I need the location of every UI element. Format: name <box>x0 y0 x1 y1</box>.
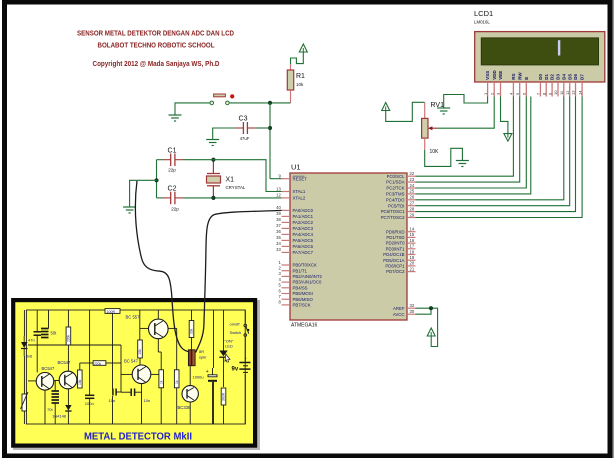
inset coil 50t <box>41 328 49 330</box>
wire PC1 to LCD <box>416 97 520 183</box>
wire PC2 to LCD <box>416 97 527 189</box>
svg-text:22p: 22p <box>171 207 179 212</box>
wire search-coil A (freehand) <box>135 181 188 352</box>
svg-text:100n: 100n <box>85 401 94 406</box>
svg-text:10: 10 <box>553 90 558 95</box>
inset capacitor 100n <box>85 394 94 396</box>
node crystal bottom <box>211 196 215 200</box>
svg-text:8R: 8R <box>199 349 204 354</box>
U1 pin 15 PD1/TXD <box>407 236 416 238</box>
svg-text:Copyright 2012 @ Mada Sanjaya: Copyright 2012 @ Mada Sanjaya WS, Ph.D <box>93 61 220 68</box>
wire PC3 to LCD <box>416 97 531 194</box>
svg-text:25: 25 <box>410 189 415 194</box>
svg-text:PB5/MOSI: PB5/MOSI <box>293 291 313 296</box>
inset resistor 33k <box>189 321 194 338</box>
svg-text:34: 34 <box>276 241 281 246</box>
svg-text:AVCC: AVCC <box>393 312 405 317</box>
IC U1 ATMEGA16 body <box>290 173 407 320</box>
wire VSS to ground <box>444 95 488 109</box>
wire VEE to power down <box>501 97 508 134</box>
LCD pin 10 D3 <box>557 82 559 97</box>
wire C1 row to XTAL1 <box>183 160 282 192</box>
svg-text:220k: 220k <box>67 334 71 342</box>
svg-text:PC4/TDO: PC4/TDO <box>386 197 405 202</box>
ground at C3 <box>206 139 219 141</box>
LCD pin 11 D4 <box>563 82 565 97</box>
LCD cursor <box>558 40 560 55</box>
U1 pin 32 AREF <box>407 307 416 309</box>
svg-text:PD6/ICP1: PD6/ICP1 <box>385 264 405 269</box>
svg-text:21: 21 <box>410 266 415 271</box>
svg-text:VDD: VDD <box>492 70 497 80</box>
node switch/R1/reset junction <box>268 101 272 105</box>
inset capacitor 10n a <box>112 389 114 396</box>
svg-text:PB1/T1: PB1/T1 <box>293 268 308 273</box>
ground at VSS <box>437 107 450 109</box>
svg-text:PA5/ADC5: PA5/ADC5 <box>293 238 314 243</box>
svg-text:1k: 1k <box>159 380 163 384</box>
LCD pin 7 D0 <box>539 82 541 97</box>
svg-text:D0: D0 <box>538 74 543 80</box>
node AREF/AVCC <box>429 306 433 310</box>
U1 pin 6 PB5/MOSI <box>282 293 291 295</box>
svg-text:PA4/ADC4: PA4/ADC4 <box>293 232 314 237</box>
svg-text:29: 29 <box>410 212 415 217</box>
U1 pin 13 XTAL1 <box>282 191 291 193</box>
svg-text:12: 12 <box>565 90 570 95</box>
svg-text:37: 37 <box>276 223 281 228</box>
svg-text:14: 14 <box>410 227 415 232</box>
inset speaker 8R <box>188 350 191 366</box>
svg-text:32: 32 <box>410 303 415 308</box>
svg-text:PA2/ADC2: PA2/ADC2 <box>293 220 314 225</box>
svg-text:24: 24 <box>410 183 415 188</box>
LCD screen <box>481 38 598 65</box>
svg-text:+: + <box>206 369 209 375</box>
U1 pin 30 AVCC <box>407 313 416 315</box>
svg-text:PB3/AIN1/OC0: PB3/AIN1/OC0 <box>293 280 323 285</box>
svg-text:C1: C1 <box>168 148 177 155</box>
inset resistor 220k h <box>93 361 106 366</box>
svg-text:220k: 220k <box>94 362 102 366</box>
svg-text:13: 13 <box>276 186 281 191</box>
svg-text:15: 15 <box>410 232 415 237</box>
U1 pin 4 PB3/AIN1/OC0 <box>282 281 291 283</box>
svg-text:390R: 390R <box>222 392 226 401</box>
svg-text:PA6/ADC6: PA6/ADC6 <box>293 244 314 249</box>
svg-text:LCD1: LCD1 <box>474 9 493 18</box>
svg-text:PA0/ADC0: PA0/ADC0 <box>293 208 314 213</box>
inset trimmer with arrow <box>22 394 26 411</box>
inset wire horizontals <box>28 380 36 382</box>
svg-text:D1: D1 <box>544 74 549 80</box>
svg-text:AREF: AREF <box>393 306 405 311</box>
ground at RV1 bottom <box>456 160 469 162</box>
svg-text:1N4148: 1N4148 <box>52 414 67 419</box>
inset metal detector picture frame <box>15 302 259 449</box>
U1 pin 12 XTAL2 <box>282 197 291 199</box>
LCD LCD1 body <box>475 32 605 82</box>
U1 pin 38 PA2/ADC2 <box>282 221 291 223</box>
inset wire verticals <box>36 310 38 332</box>
inset resistor 10k <box>138 340 143 358</box>
U1 pin 34 PA6/ADC6 <box>282 245 291 247</box>
svg-text:Switch: Switch <box>230 330 242 335</box>
svg-text:PD3/INT1: PD3/INT1 <box>386 246 405 251</box>
svg-text:16: 16 <box>410 238 415 243</box>
U1 pin 9 RESET <box>282 178 291 180</box>
svg-text:27: 27 <box>410 201 415 206</box>
inset inner border <box>26 310 245 424</box>
wire AREF <box>416 308 438 346</box>
svg-text:D6: D6 <box>573 74 578 80</box>
svg-text:47n: 47n <box>28 338 35 343</box>
inset resistor 100R <box>105 309 120 314</box>
svg-text:PA3/ADC3: PA3/ADC3 <box>293 226 314 231</box>
power down terminal at VEE <box>504 134 512 142</box>
wire node down to C3 and RESET <box>269 103 271 179</box>
svg-text:RESET: RESET <box>293 176 308 181</box>
svg-text:PC7/TOSC2: PC7/TOSC2 <box>381 215 405 220</box>
svg-text:ATMEGA16: ATMEGA16 <box>291 323 318 329</box>
svg-text:on/off: on/off <box>230 322 241 327</box>
node left rail <box>154 178 158 182</box>
svg-text:18: 18 <box>410 249 415 254</box>
node crystal top <box>211 158 215 162</box>
inset resistor r8 <box>174 370 179 388</box>
svg-text:19: 19 <box>410 255 415 260</box>
svg-text:40: 40 <box>276 205 281 210</box>
svg-text:36: 36 <box>276 229 281 234</box>
svg-text:D2: D2 <box>550 74 555 80</box>
wire node to RESET <box>270 178 282 180</box>
node C3 junction <box>268 126 272 130</box>
U1 pin 27 PC5/TDI <box>407 205 416 207</box>
svg-text:PD2/INT0: PD2/INT0 <box>386 241 405 246</box>
crystal X1 <box>212 160 214 174</box>
U1 pin 21 PD7/OC2 <box>407 271 416 273</box>
svg-text:X1: X1 <box>226 177 235 184</box>
U1 pin 22 PC0/SCL <box>407 175 416 177</box>
svg-text:BC338: BC338 <box>178 405 191 410</box>
wire AVCC <box>416 308 432 314</box>
power VCC terminal at RV1 <box>382 103 390 111</box>
push button switch <box>214 94 226 97</box>
svg-text:RW: RW <box>517 72 522 80</box>
svg-text:10k: 10k <box>296 82 304 87</box>
svg-text:METAL DETECTOR MkII: METAL DETECTOR MkII <box>84 432 192 443</box>
svg-text:R1: R1 <box>296 73 305 80</box>
U1 pin 16 PD2/INT0 <box>407 242 416 244</box>
svg-text:PC6/TOSC1: PC6/TOSC1 <box>381 209 405 214</box>
U1 pin 28 PC6/TOSC1 <box>407 211 416 213</box>
wire PC6 to LCD <box>416 97 576 212</box>
wire PC0 to LCD <box>416 97 514 177</box>
svg-text:13: 13 <box>571 90 576 95</box>
svg-text:PA7/ADC7: PA7/ADC7 <box>293 250 314 255</box>
svg-text:XTAL1: XTAL1 <box>293 189 306 194</box>
svg-text:spkr: spkr <box>199 355 207 360</box>
svg-text:VSS: VSS <box>485 71 490 80</box>
U1 pin 7 PB6/MISO <box>282 298 291 300</box>
U1 pin 18 PD4/OC1B <box>407 254 416 256</box>
wire C3 right to node <box>256 127 270 129</box>
svg-text:PC2/TCK: PC2/TCK <box>386 186 404 191</box>
U1 pin 39 PA1/ADC1 <box>282 215 291 217</box>
inset resistor 220k <box>66 327 71 345</box>
wire C3 left to ground <box>213 128 235 140</box>
svg-text:PB2/AIN0/INT2: PB2/AIN0/INT2 <box>293 274 323 279</box>
LCD pin 8 D1 <box>545 82 547 97</box>
svg-text:BC 557: BC 557 <box>126 315 141 320</box>
inset zener 5v6 <box>21 342 28 348</box>
svg-text:PD1/TXD: PD1/TXD <box>386 235 404 240</box>
inset resistor 390R <box>221 388 226 405</box>
LCD pin 2 VDD <box>493 82 495 97</box>
svg-text:D5: D5 <box>567 74 572 80</box>
svg-text:1000u: 1000u <box>193 374 204 379</box>
ground at left rail <box>123 206 136 208</box>
svg-text:22: 22 <box>410 171 415 176</box>
svg-text:SENSOR METAL DETEKTOR DENGAN A: SENSOR METAL DETEKTOR DENGAN ADC DAN LCD <box>77 31 234 38</box>
U1 pin 5 PB4/SS <box>282 287 291 289</box>
svg-text:BC547: BC547 <box>42 366 55 371</box>
svg-text:PD0/RXD: PD0/RXD <box>386 229 405 234</box>
svg-text:33k: 33k <box>190 328 194 334</box>
svg-text:PB6/MISO: PB6/MISO <box>293 297 314 302</box>
svg-text:50t: 50t <box>51 331 58 336</box>
inset resistor r2 <box>78 370 83 388</box>
svg-text:D7: D7 <box>580 74 585 80</box>
svg-text:RS: RS <box>511 74 516 80</box>
LCD pin 3 VEE <box>500 82 502 97</box>
svg-text:22p: 22p <box>168 168 176 173</box>
inset capacitor 10n b <box>130 389 132 397</box>
svg-text:28: 28 <box>410 206 415 211</box>
U1 pin 1 PB0/T0/XCK <box>282 264 291 266</box>
svg-text:PD5/OC1A: PD5/OC1A <box>383 258 404 263</box>
svg-text:D4: D4 <box>561 74 566 80</box>
U1 pin 40 PA0/ADC0 <box>282 209 291 211</box>
svg-text:BC 547: BC 547 <box>124 359 139 364</box>
svg-text:PC5/TDI: PC5/TDI <box>388 203 404 208</box>
svg-text:17: 17 <box>410 244 415 249</box>
U1 pin 36 PA4/ADC4 <box>282 233 291 235</box>
svg-text:RV1: RV1 <box>431 102 445 109</box>
svg-text:10n: 10n <box>144 398 151 403</box>
wire C1 left to rail <box>157 159 163 161</box>
svg-text:47uF: 47uF <box>240 136 250 141</box>
U1 pin 8 PB7/SCK <box>282 304 291 306</box>
svg-text:1k: 1k <box>175 380 179 384</box>
svg-text:100R: 100R <box>107 310 116 314</box>
wire R1 top to VCC <box>291 52 304 64</box>
svg-text:PB0/T0/XCK: PB0/T0/XCK <box>293 263 317 268</box>
LCD pin 5 RW <box>519 82 521 97</box>
svg-text:XTAL2: XTAL2 <box>293 196 306 201</box>
inset resistor r7 <box>159 370 164 388</box>
svg-text:CRYSTAL: CRYSTAL <box>226 185 246 190</box>
U1 pin 37 PA3/ADC3 <box>282 227 291 229</box>
svg-text:23: 23 <box>410 177 415 182</box>
svg-text:70t: 70t <box>47 407 53 412</box>
svg-text:PC3/TMS: PC3/TMS <box>386 192 405 197</box>
U1 pin 33 PA7/ADC7 <box>282 251 291 253</box>
U1 pin 14 PD0/RXD <box>407 231 416 233</box>
svg-text:33: 33 <box>276 247 281 252</box>
svg-text:20: 20 <box>410 261 415 266</box>
svg-text:9v: 9v <box>232 367 239 373</box>
svg-text:U1: U1 <box>291 162 301 171</box>
svg-text:PD4/OC1B: PD4/OC1B <box>383 252 404 257</box>
svg-text:38: 38 <box>276 217 281 222</box>
svg-text:30: 30 <box>410 309 415 314</box>
wire VDD to RV1 wiper <box>437 97 494 129</box>
U1 pin 25 PC3/TMS <box>407 193 416 195</box>
LCD pin 14 D7 <box>581 82 583 97</box>
wire C2 right to XTAL2 <box>183 197 282 199</box>
LCD pin 13 D6 <box>575 82 577 97</box>
LCD pin 9 D2 <box>551 82 553 97</box>
svg-text:E: E <box>524 77 529 80</box>
wire VCC to RV1 top <box>386 102 425 121</box>
svg-text:PB4/SS: PB4/SS <box>293 285 308 290</box>
wire PC7 to LCD <box>416 97 583 218</box>
U1 pin 24 PC2/TCK <box>407 187 416 189</box>
inset coil 70t <box>52 390 60 392</box>
svg-text:LM016L: LM016L <box>474 20 490 25</box>
U1 pin 17 PD3/INT1 <box>407 248 416 250</box>
svg-text:10K: 10K <box>430 149 440 155</box>
left rail vertical <box>156 160 158 198</box>
ground at switch <box>169 114 182 116</box>
LCD pin 6 E <box>525 82 527 97</box>
LCD pin 1 VSS <box>487 82 489 97</box>
svg-text:PC0/SCL: PC0/SCL <box>387 174 406 179</box>
wire PC4 to LCD <box>416 97 564 200</box>
potentiometer RV1 <box>424 102 426 118</box>
U1 pin 35 PA5/ADC5 <box>282 239 291 241</box>
U1 pin 23 PC1/SDA <box>407 181 416 183</box>
inset capacitor 47n <box>34 331 42 333</box>
svg-text:PC1/SDA: PC1/SDA <box>386 180 405 185</box>
svg-text:LED: LED <box>225 343 233 348</box>
svg-text:BOLABOT TECHNO ROBOTIC SCHOOL: BOLABOT TECHNO ROBOTIC SCHOOL <box>98 43 216 50</box>
wire search-coil B (freehand) <box>196 210 282 352</box>
LCD pin 4 RS <box>512 82 514 97</box>
U1 pin 20 PD6/ICP1 <box>407 265 416 267</box>
svg-text:35: 35 <box>276 235 281 240</box>
wire C2 left to rail <box>157 197 163 199</box>
U1 pin 2 PB1/T1 <box>282 270 291 272</box>
power VCC terminal at AVCC <box>427 328 435 336</box>
wire RV1 bottom to ground <box>425 148 463 166</box>
svg-text:26: 26 <box>410 195 415 200</box>
U1 pin 19 PD5/OC1A <box>407 259 416 261</box>
U1 pin 26 PC4/TDO <box>407 199 416 201</box>
U1 pin 3 PB2/AIN0/INT2 <box>282 275 291 277</box>
svg-text:14: 14 <box>577 90 582 95</box>
resistor R1 <box>290 64 292 70</box>
wire rail to ground <box>130 180 157 207</box>
inset diode 1N4148 <box>65 405 71 411</box>
svg-text:PA1/ADC1: PA1/ADC1 <box>293 214 314 219</box>
U1 pin 29 PC7/TOSC2 <box>407 217 416 219</box>
svg-text:C2: C2 <box>168 186 177 193</box>
svg-text:C3: C3 <box>239 116 248 123</box>
svg-text:PB7/SCK: PB7/SCK <box>293 303 311 308</box>
wire switch left to ground <box>175 103 210 115</box>
svg-text:10n: 10n <box>109 398 116 403</box>
svg-text:5v6: 5v6 <box>26 354 33 359</box>
svg-text:PD7/OC2: PD7/OC2 <box>386 269 405 274</box>
svg-text:BC547: BC547 <box>58 360 71 365</box>
wire switch right to R1 bottom <box>230 102 291 104</box>
wire PC5 to LCD <box>416 97 570 206</box>
LCD pin 12 D5 <box>569 82 571 97</box>
svg-text:10k: 10k <box>138 349 142 355</box>
svg-text:VEE: VEE <box>498 71 503 80</box>
svg-text:12: 12 <box>276 193 281 198</box>
svg-text:39: 39 <box>276 211 281 216</box>
svg-text:D3: D3 <box>556 74 561 80</box>
inset transistor BC338 T5 <box>182 386 198 402</box>
svg-text:15k: 15k <box>78 379 82 385</box>
power VCC terminal top <box>299 44 307 52</box>
